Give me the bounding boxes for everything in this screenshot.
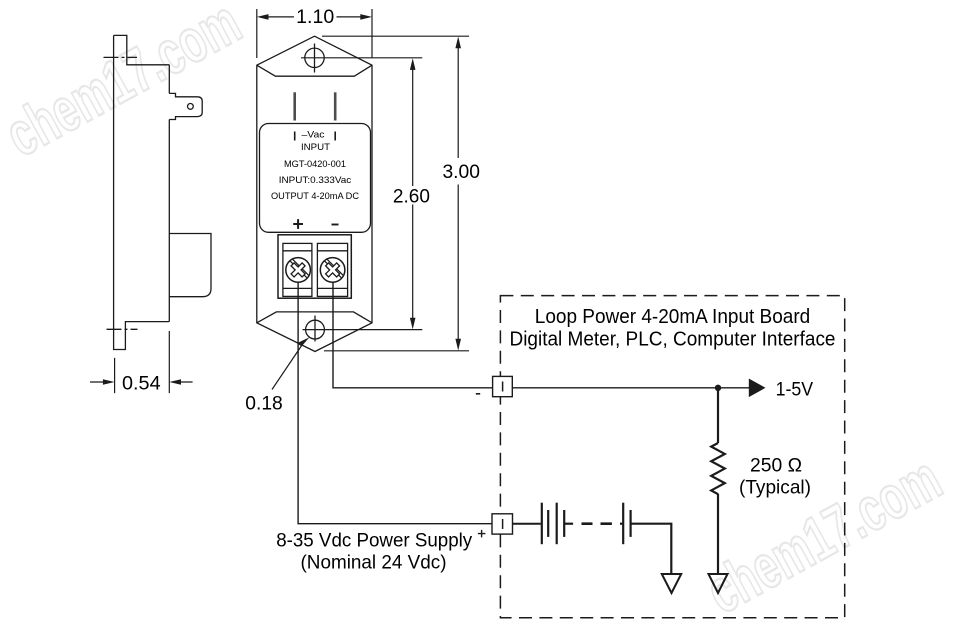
battery stub left <box>564 523 573 525</box>
dimension 1.10 arrowheads <box>257 14 372 20</box>
label tick right <box>334 132 336 141</box>
battery dashed middle <box>582 522 612 525</box>
svg-text:0.18: 0.18 <box>245 392 283 414</box>
svg-text:1.10: 1.10 <box>296 6 334 28</box>
wire from + screw to power supply row <box>298 282 492 524</box>
dimension 3.00 arrowheads <box>455 37 461 351</box>
top mounting hole <box>305 44 324 73</box>
bottom mounting hole <box>306 316 325 342</box>
svg-text:Loop Power 4-20mA Input Board: Loop Power 4-20mA Input Board <box>535 306 810 328</box>
wire battery to ground left <box>631 524 672 574</box>
dimension 1.10 <box>257 9 372 58</box>
svg-text:INPUT: INPUT <box>301 142 330 152</box>
svg-text:(Nominal 24 Vdc): (Nominal 24 Vdc) <box>301 551 447 573</box>
dimension 2.60 arrowheads <box>410 58 416 329</box>
terminal screw left <box>286 258 311 283</box>
dimension 2.60 line <box>412 70 414 319</box>
wire top pad to junction <box>512 387 718 389</box>
terminal cell left <box>283 243 312 296</box>
minus mark on label <box>332 224 339 226</box>
centerline bottom mounting hole (side view) <box>107 328 138 330</box>
label tick left <box>294 132 296 141</box>
front view body outline <box>257 36 372 351</box>
dimension 0.54 extension lines <box>115 331 170 393</box>
battery cells right <box>623 503 630 545</box>
svg-text:(Typical): (Typical) <box>739 477 811 499</box>
dimension 2.60 extension lines <box>301 58 422 330</box>
svg-text:MGT-0420-001: MGT-0420-001 <box>284 159 346 169</box>
svg-text:INPUT:0.333Vac: INPUT:0.333Vac <box>279 175 352 185</box>
side view terminal block protrusion <box>169 234 211 297</box>
1-5V output arrow <box>749 379 766 398</box>
svg-text:–Vac: –Vac <box>302 130 325 140</box>
terminal block outline <box>278 235 351 298</box>
dimension 3.00 line <box>457 48 459 339</box>
wire junction down to resistor <box>717 388 719 443</box>
svg-text:2.60: 2.60 <box>393 185 430 207</box>
dimension 0.54 lines <box>90 381 193 383</box>
centerline top mounting hole (side view) <box>104 56 138 58</box>
prong slot right <box>334 92 337 120</box>
prong slot left <box>293 92 296 120</box>
dimension 3.00 extension lines <box>322 36 469 351</box>
label box <box>260 124 371 233</box>
dimension 0.54 arrowheads <box>103 379 181 385</box>
svg-text:OUTPUT 4-20mA DC: OUTPUT 4-20mA DC <box>271 191 359 201</box>
wire resistor to ground <box>717 494 719 574</box>
resistor 250 ohm <box>711 443 725 494</box>
terminal pad top (minus input) <box>493 376 513 396</box>
svg-text:1-5V: 1-5V <box>776 378 814 400</box>
wire bottom pad to battery <box>513 523 541 525</box>
minus polarity label <box>476 393 480 395</box>
ground right <box>709 574 728 593</box>
plus mark on label <box>293 219 303 229</box>
plus polarity label <box>478 530 486 538</box>
side view bracket plate <box>114 35 170 349</box>
junction node dot <box>715 385 721 391</box>
wire junction to arrow <box>718 387 749 389</box>
svg-text:Digital Meter, PLC, Computer I: Digital Meter, PLC, Computer Interface <box>510 328 836 350</box>
battery cells left <box>542 503 564 545</box>
wire from - screw to input board terminal <box>333 282 493 388</box>
side view blade terminal tab <box>169 93 202 119</box>
battery stub right <box>620 523 623 525</box>
leader line 0.18 <box>272 344 303 390</box>
leader 0.18 arrowhead <box>297 337 310 346</box>
svg-text:0.54: 0.54 <box>122 372 161 394</box>
dashed input board boundary box <box>500 296 844 618</box>
svg-text:3.00: 3.00 <box>442 161 480 183</box>
ground left <box>662 574 681 593</box>
svg-text:250 Ω: 250 Ω <box>750 455 802 477</box>
terminal cell right <box>317 243 347 296</box>
terminal screw right <box>320 258 345 283</box>
svg-text:8-35 Vdc Power Supply: 8-35 Vdc Power Supply <box>276 529 472 551</box>
terminal pad bottom (plus supply) <box>492 514 513 534</box>
